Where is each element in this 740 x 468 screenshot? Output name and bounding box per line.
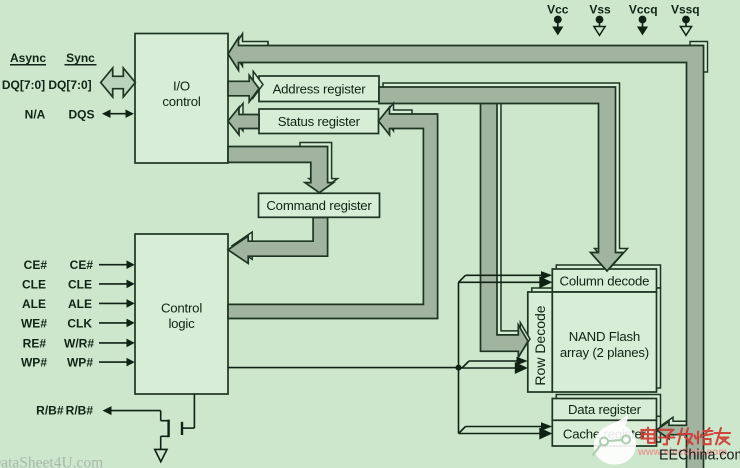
bus command register to control logic (main) — [228, 218, 328, 264]
svg-text:WP#: WP# — [67, 356, 93, 370]
svg-text:CLE: CLE — [22, 277, 46, 291]
svg-text:Row Decode: Row Decode — [532, 305, 548, 385]
svg-text:Control: Control — [161, 301, 202, 316]
svg-text:ALE: ALE — [22, 297, 46, 311]
wire control to column decode (double line arrow) — [459, 271, 553, 288]
pin CE# wire — [99, 260, 135, 269]
svg-text:CLE: CLE — [68, 277, 92, 291]
svg-text:R/B#: R/B# — [66, 404, 94, 418]
bus status register to I/O control (main) — [228, 107, 259, 135]
svg-text:Vcc: Vcc — [547, 3, 569, 17]
svg-text:control: control — [162, 94, 200, 109]
block NAND Flash array (2 planes) — [552, 292, 656, 392]
bus control logic to status register (main) — [228, 107, 438, 318]
svg-text:Sync: Sync — [66, 51, 95, 65]
svg-text:Command register: Command register — [266, 198, 372, 213]
block Control logic — [135, 234, 228, 394]
plane-2 echo box behind Cache register — [556, 416, 660, 442]
svg-text:ALE: ALE — [68, 297, 92, 311]
hanzi fa — [678, 428, 693, 444]
block Address register — [259, 76, 379, 102]
hanzi shao — [695, 428, 713, 444]
control logic output net to decoders — [228, 282, 459, 433]
svg-text:NAND Flash: NAND Flash — [569, 329, 640, 344]
svg-text:RE#: RE# — [23, 336, 47, 350]
wire control to row decode (double line arrow) — [459, 357, 528, 374]
block I/O control — [135, 34, 228, 164]
DQS bidirectional wire — [102, 110, 134, 118]
hanzi zi — [659, 430, 675, 445]
bus loop branch head echo (into cache register) — [661, 417, 692, 435]
svg-text:Vccq: Vccq — [629, 3, 658, 17]
bus I/O control to command register (main) — [228, 147, 334, 193]
svg-text:CE#: CE# — [24, 258, 48, 272]
svg-text:Async: Async — [10, 51, 46, 65]
svg-text:DQ[7:0]: DQ[7:0] — [48, 78, 91, 92]
watermark chinese text — [642, 428, 731, 445]
bus command register to control logic, head echo — [232, 232, 252, 259]
bus address branch to row decode (main) — [481, 96, 529, 357]
pin ALE wire — [99, 299, 135, 308]
svg-text:DQS: DQS — [68, 108, 94, 122]
Vss power pin symbol — [594, 16, 605, 36]
Vssq power pin symbol — [680, 16, 691, 36]
transistor Q1 open-drain output — [169, 394, 195, 437]
svg-text:DataSheet4U.com: DataSheet4U.com — [0, 455, 103, 468]
svg-text:R/B#: R/B# — [36, 404, 64, 418]
open triangle to pad — [155, 449, 167, 461]
block Cache register — [552, 420, 656, 446]
block Data register — [552, 399, 656, 421]
plane-2 echo box behind Row Decode — [532, 288, 557, 388]
bus I/O control to command register, echo — [300, 143, 338, 189]
block Column decode — [552, 269, 656, 292]
svg-text:Address register: Address register — [273, 82, 367, 97]
wire control to cache register (double line arrow) — [459, 422, 553, 439]
junction node — [456, 365, 462, 371]
hanzi dian — [642, 428, 655, 443]
R/B# output wire — [109, 411, 168, 450]
svg-text:WP#: WP# — [21, 356, 47, 370]
bus status register to I/O control, head echo — [232, 103, 243, 131]
watermark elecfans logo blob — [594, 415, 636, 465]
block Row Decode — [528, 292, 553, 392]
plane-2 echo box behind Column decode — [556, 265, 660, 288]
svg-text:Status register: Status register — [278, 114, 361, 129]
Vccq power pin symbol — [637, 16, 648, 36]
bus address register to column decode (main) — [379, 87, 624, 271]
block Command register — [259, 193, 380, 217]
svg-text:logic: logic — [168, 316, 195, 331]
bus control logic to status register, head echo — [383, 103, 413, 131]
pin RE#/WR# wire — [99, 339, 135, 348]
svg-text:W/R#: W/R# — [64, 336, 94, 350]
svg-text:CE#: CE# — [70, 258, 94, 272]
Vcc power pin symbol — [552, 16, 563, 36]
pin CLE wire — [99, 280, 135, 289]
svg-text:Vssq: Vssq — [671, 3, 700, 17]
plane-2 echo box behind NAND Flash array — [556, 288, 660, 388]
R/B# arrowhead — [103, 406, 112, 415]
bus I/O control to address register (main) — [228, 75, 259, 102]
svg-text:I/O: I/O — [173, 79, 190, 94]
svg-text:Data register: Data register — [568, 402, 642, 417]
bus I/O control to cache register loop (top-right), echo of arrowhead — [232, 34, 268, 66]
pin WE#/CLK wire — [99, 319, 135, 328]
svg-text:WE#: WE# — [21, 316, 47, 330]
svg-text:Column decode: Column decode — [560, 274, 650, 289]
svg-text:CLK: CLK — [67, 316, 92, 330]
bus I/O control to address register, head echo — [253, 71, 263, 98]
svg-text:Vss: Vss — [589, 3, 611, 17]
block Status register — [259, 109, 379, 134]
hanzi you — [715, 428, 731, 444]
DQ bidirectional arrow — [101, 68, 136, 97]
bus loop corner echo (top-right) — [690, 42, 708, 73]
bus address register to decoders, echo — [383, 83, 628, 267]
svg-text:array (2 planes): array (2 planes) — [560, 345, 649, 360]
pin WP# wire — [99, 358, 135, 367]
svg-text:DQ[7:0]: DQ[7:0] — [2, 78, 45, 92]
svg-text:N/A: N/A — [25, 108, 46, 122]
svg-text:EEChina.com: EEChina.com — [659, 448, 740, 464]
bus I/O control to cache register loop (main) — [228, 38, 704, 468]
plane-2 echo box behind Data register — [556, 395, 660, 417]
bus address branch to row decode, echo — [485, 96, 531, 354]
